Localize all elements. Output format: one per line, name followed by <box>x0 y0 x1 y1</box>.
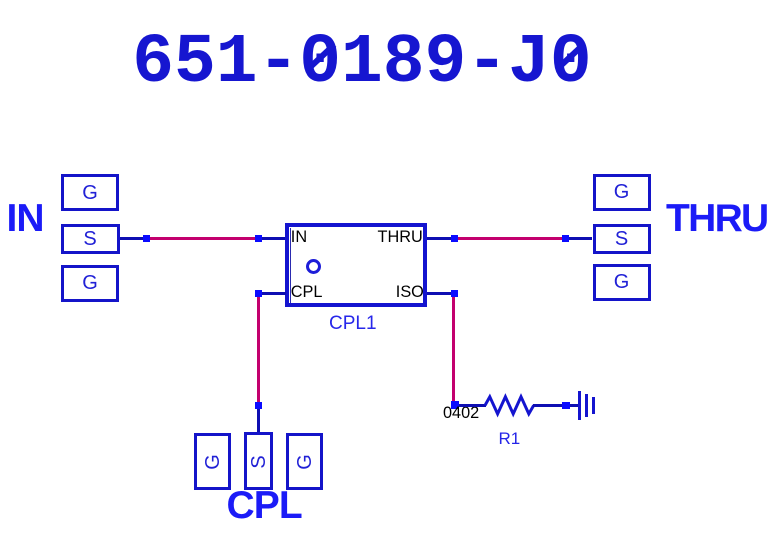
wire resistor to node <box>533 404 562 407</box>
wire ISO pin to node <box>427 292 451 295</box>
title 651-0189-J0 <box>132 28 591 98</box>
wire node to S-bottom <box>257 409 260 433</box>
wire THRU pin to node <box>427 237 451 240</box>
port label THRU <box>666 199 768 238</box>
pad S left <box>61 224 120 254</box>
pin-1 indicator line <box>290 228 291 304</box>
pad G bottom-left of CPL port <box>194 433 231 490</box>
wire S-left to node <box>120 237 144 240</box>
wire net THRU (magenta) <box>458 237 562 240</box>
letter S rotated (CPL) <box>249 452 269 472</box>
letter G rotated (CPL left) <box>203 452 223 472</box>
port label CPL <box>227 486 302 525</box>
letter G bottom-left <box>80 273 100 293</box>
port label IN <box>7 199 44 238</box>
letter G rotated (CPL right) <box>295 452 315 472</box>
node square CPL bottom <box>255 402 262 409</box>
letter G top-left <box>80 183 100 203</box>
node square resistor left <box>451 401 459 409</box>
node square right 2 <box>562 235 569 242</box>
letter S left <box>80 229 100 249</box>
letter G top-right <box>612 182 632 202</box>
resistor R1 <box>481 393 537 418</box>
designator CPL1 <box>329 314 377 333</box>
wire node to IN pin <box>262 237 286 240</box>
pad G bottom-left <box>61 265 119 302</box>
pad G bottom-right of CPL port <box>286 433 323 490</box>
slash of zero 2 <box>554 42 584 71</box>
pad G bottom-right <box>593 264 651 301</box>
wire node to S-right <box>569 237 593 240</box>
node square left 1 <box>143 235 150 242</box>
node square ISO <box>451 290 458 297</box>
pad S of CPL port <box>244 432 273 490</box>
node square left 2 <box>255 235 262 242</box>
wire CPL pin to node <box>262 292 286 295</box>
value label 0402 <box>443 405 479 421</box>
pin label IN <box>291 229 307 245</box>
node square ground <box>562 402 570 410</box>
pad G top-left <box>61 174 119 211</box>
wire net IN (magenta) <box>150 237 254 240</box>
slash of zero 1 <box>305 42 335 71</box>
wire node to ground <box>570 404 578 407</box>
letter S right <box>612 229 632 249</box>
ground symbol <box>578 391 582 420</box>
pin label CPL <box>291 284 323 300</box>
wire node to resistor <box>459 404 486 407</box>
wire net ISO (magenta vertical) <box>452 297 455 401</box>
pin label ISO <box>396 284 424 300</box>
node square right 1 <box>451 235 458 242</box>
pin-1 circle <box>306 259 321 274</box>
pin label THRU <box>378 229 423 245</box>
designator R1 <box>499 430 521 447</box>
letter G bottom-right <box>612 272 632 292</box>
pad S right <box>593 224 652 254</box>
pad G top-right <box>593 174 651 211</box>
coupler CPL1 body <box>285 223 427 308</box>
wire net CPL (magenta vertical) <box>257 297 260 402</box>
node square CPL top <box>255 290 262 297</box>
